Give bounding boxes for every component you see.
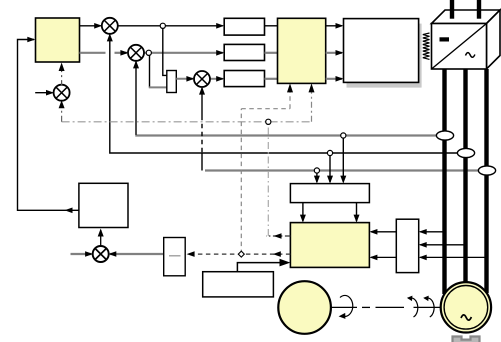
node N1 after S1 — [160, 23, 165, 28]
dc supply line 2 — [477, 0, 481, 19]
wire: shaft dash-dot — [331, 306, 441, 308]
node N7 diamond on dashed line — [238, 251, 244, 257]
wire: controller second output (gray) to summing junction S2 — [80, 50, 129, 56]
wire: voltage tap 2 — [419, 242, 466, 248]
node N2 after S2 — [146, 50, 151, 55]
wire: branch from node N1 down into decoupling rect — [163, 28, 167, 75]
wire: R1 to yellow transform block — [265, 25, 278, 27]
block: rect R2 — [224, 44, 264, 60]
block: decoupling rect (small) — [167, 71, 177, 93]
block: coordinate transform (yellow) — [278, 18, 326, 83]
wire: decoupling rect output (gray) to S3 — [176, 76, 194, 82]
wire: controller top output to summing junction S1 — [80, 23, 103, 29]
phase line b (thick) — [463, 69, 467, 283]
wire: drop from node N5 into 3-2 transform — [327, 153, 333, 184]
block: 3-2 transform wide rect — [290, 184, 369, 203]
wire: dashed flux branch up to transform block — [241, 83, 293, 254]
wire: S1 output to rect R1 — [117, 23, 224, 29]
rotation arrow 1 at motor — [407, 296, 418, 317]
rotation arrow at load — [339, 295, 353, 318]
summing junction S5 — [93, 246, 109, 262]
summing junction S4 — [54, 85, 70, 101]
block: observer (yellow) — [290, 223, 369, 268]
wire: current feedback c (gray) from sensor E3 up into S3 — [199, 87, 478, 171]
wire: gate signal bundle zigzag — [423, 33, 430, 59]
node N3 on dash-dot line — [266, 119, 271, 124]
wire: observer dash-dot speed output — [266, 122, 290, 239]
wire: drop from node N4 into 3-2 transform — [340, 136, 346, 184]
node N4 on feedback a — [341, 133, 346, 138]
summing junction S3 — [194, 71, 210, 87]
summing junction S2 — [128, 45, 144, 61]
block: voltage measure vertical rect — [396, 219, 418, 272]
wire: load torque input into S5 (gray) — [71, 251, 94, 257]
block: torque rect (small, with dash) — [164, 238, 186, 276]
wire: current feedback a (gray) from sensor E1 up into S2 — [133, 60, 436, 135]
component: motor pedestal — [453, 337, 480, 342]
wire: voltage tap 1 — [419, 229, 445, 235]
wire: voltage tap 3 — [419, 255, 487, 261]
wire: S5 up into speed calc rect — [98, 229, 104, 247]
sensor E3 on phase c — [478, 166, 495, 175]
wire: transform output 3 to PWM rect (gray) — [326, 76, 344, 82]
wire: wide rect drop 1 into observer — [300, 203, 306, 223]
block: rect R3 — [224, 71, 264, 87]
phase line a (thick) — [442, 69, 446, 294]
block: speed controller (yellow) — [36, 18, 80, 62]
phase line c (thick) — [484, 69, 488, 293]
wire: R3 to yellow transform block (gray) — [265, 78, 278, 80]
wire: dash-dot speed distribution line — [59, 83, 315, 121]
wire: voltage rect output 2 to observer — [369, 255, 396, 261]
rotation arrow 2 at motor — [423, 296, 434, 317]
sensor E1 on phase a — [436, 131, 453, 140]
component: motor circle — [441, 282, 491, 332]
component: load machine circle — [278, 281, 331, 334]
wire: branch from node N2 into decoupling rect — [149, 55, 167, 87]
wire: speed ref loop left — [18, 37, 79, 213]
wire: flux reference input into S4 — [35, 90, 54, 96]
wire: transform output 2 to PWM rect (gray) — [326, 50, 344, 56]
block: speed calc rect — [79, 183, 128, 227]
summing junction S1 — [102, 18, 118, 34]
block: PWM modulator rect with shadow — [344, 19, 422, 88]
wire: voltage rect output 1 to observer — [369, 229, 396, 235]
node N6 on feedback c — [314, 168, 319, 173]
wire: observer dashed flux output — [187, 251, 291, 257]
wire: R2 to yellow transform block (gray) — [265, 52, 278, 54]
wire: transform output 1 to PWM rect — [326, 23, 344, 29]
wire: adaptation output into observer — [237, 259, 290, 272]
wire: drop from node N6 into 3-2 transform — [314, 171, 320, 184]
block: rect R1 — [224, 18, 264, 35]
wire: current feedback b (black) from sensor E2 up into S1 — [107, 33, 457, 153]
component: inverter 3D box — [432, 10, 501, 69]
wire: torque rect output into S5 (gray) — [108, 251, 163, 257]
wire: S4 up into controller (dash-dot) — [59, 63, 65, 86]
wire: S3 output (gray) to rect R3 — [210, 76, 225, 82]
wire: wide rect drop 2 into observer — [354, 203, 360, 223]
block: adaptation rect bottom — [203, 272, 274, 297]
node N5 on feedback b — [327, 150, 332, 155]
sensor E2 on phase b — [457, 148, 474, 157]
dc supply line 1 — [450, 0, 454, 19]
wire: S2 output (gray) to rect R2 — [144, 50, 225, 56]
